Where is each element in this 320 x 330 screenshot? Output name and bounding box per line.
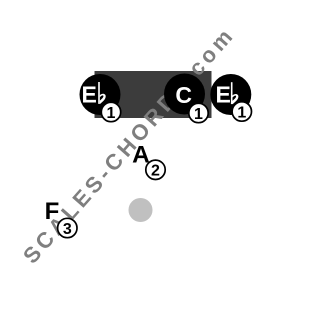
flat sign (left disc) [98, 82, 106, 104]
svg-text:1: 1 [194, 106, 203, 123]
finger badge 1 (left) [101, 102, 120, 121]
note circle Eb left [80, 74, 121, 115]
finger badge 1 (right) [232, 102, 251, 121]
svg-text:1: 1 [107, 105, 116, 122]
flat sign (right disc) [231, 82, 239, 104]
svg-text:E: E [216, 81, 231, 107]
finger badge 1 (middle) [189, 103, 208, 122]
note circle C [164, 74, 205, 115]
svg-text:C: C [175, 82, 192, 108]
finger badge 3 [58, 218, 77, 237]
watermark SCALES-CHORDS.com [18, 24, 237, 268]
fret position dot [129, 198, 153, 222]
svg-text:1: 1 [237, 104, 246, 121]
svg-text:F: F [45, 198, 60, 225]
svg-text:3: 3 [63, 221, 72, 238]
svg-text:2: 2 [151, 163, 160, 180]
note circle Eb right [210, 74, 251, 115]
finger badge 2 [146, 160, 165, 179]
barre bar [95, 71, 212, 118]
svg-text:E: E [82, 82, 97, 108]
